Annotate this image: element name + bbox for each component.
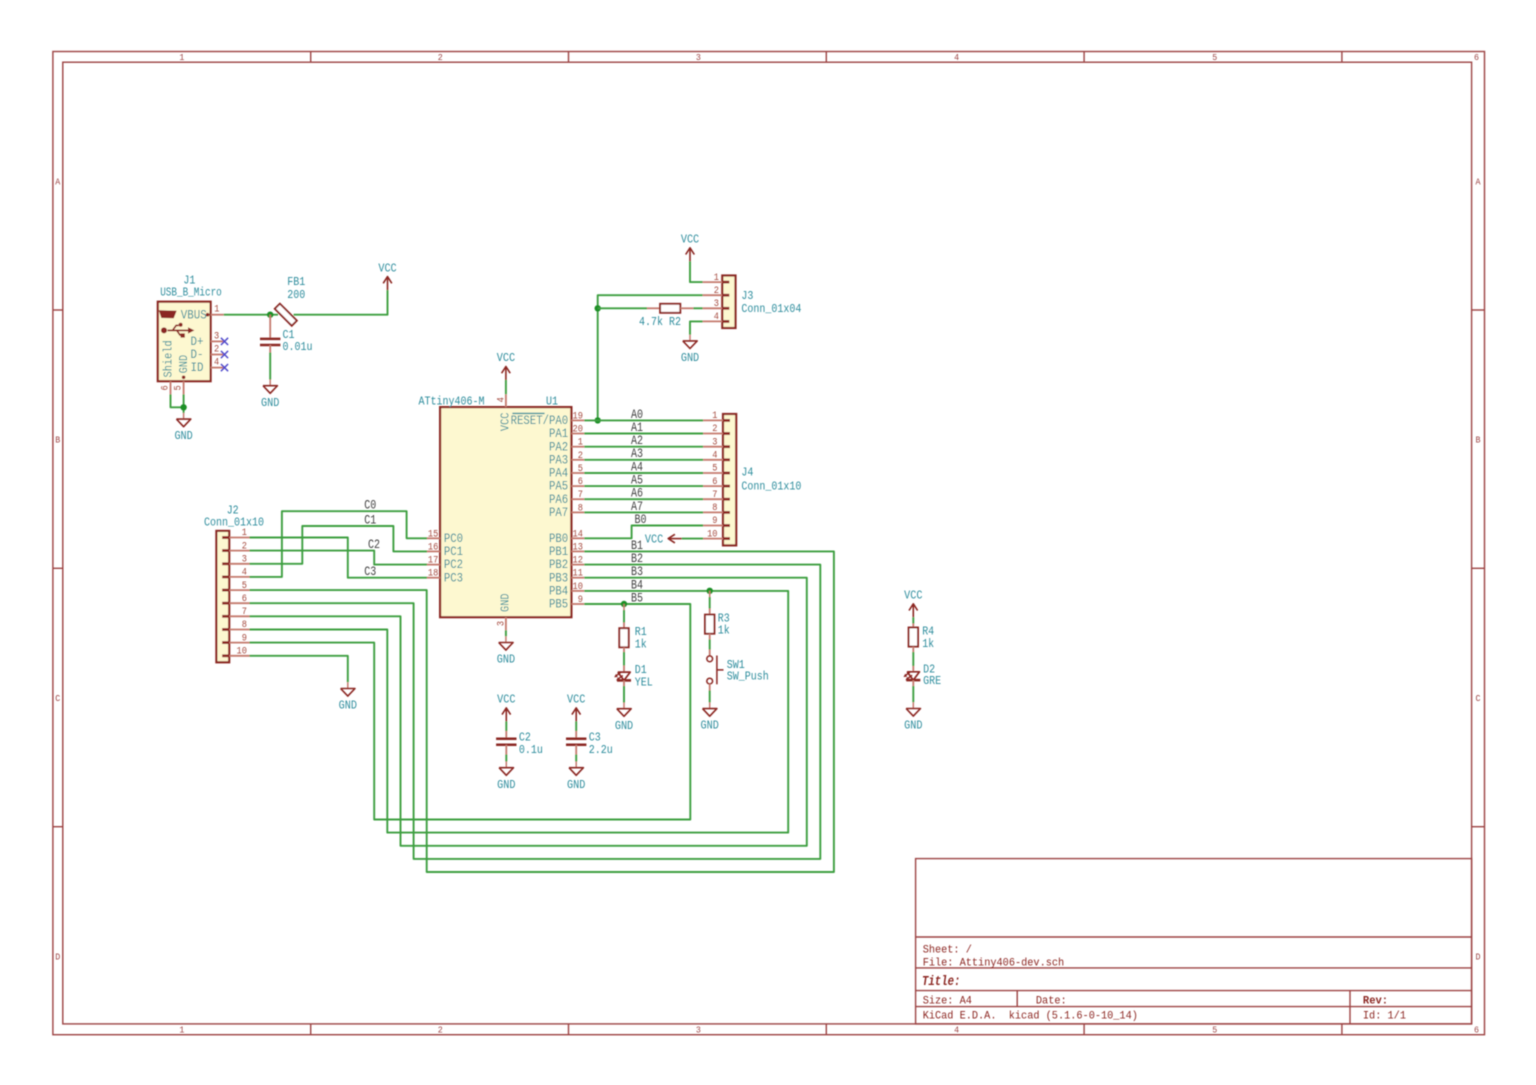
svg-text:9: 9 [578, 595, 583, 606]
svg-text:PC1: PC1 [444, 545, 463, 559]
svg-text:GND: GND [904, 720, 922, 733]
svg-text:17: 17 [428, 556, 438, 567]
svg-text:PA5: PA5 [549, 480, 568, 494]
svg-text:J4: J4 [741, 467, 753, 480]
svg-text:KiCad E.D.A. kicad (5.1.6-0-1: KiCad E.D.A. kicad (5.1.6-0-10_14) [923, 1011, 1138, 1023]
svg-text:0.1u: 0.1u [519, 744, 543, 757]
svg-text:10: 10 [237, 647, 247, 658]
svg-text:PA1: PA1 [549, 427, 568, 441]
svg-text:0.01u: 0.01u [283, 341, 313, 354]
svg-text:5: 5 [1212, 53, 1217, 63]
svg-text:3: 3 [496, 621, 507, 626]
svg-text:A: A [55, 177, 61, 187]
svg-text:7: 7 [712, 490, 717, 501]
svg-text:ATtiny406-M: ATtiny406-M [419, 395, 485, 408]
svg-text:B0: B0 [635, 512, 647, 527]
svg-text:15: 15 [428, 529, 438, 540]
svg-text:5: 5 [578, 464, 583, 475]
svg-text:YEL: YEL [635, 677, 653, 690]
svg-text:6: 6 [712, 477, 717, 488]
svg-text:PA4: PA4 [549, 467, 568, 481]
svg-text:PA2: PA2 [549, 440, 568, 454]
svg-text:D1: D1 [635, 664, 647, 677]
svg-text:C2: C2 [368, 537, 380, 552]
svg-text:Date:: Date: [1036, 996, 1067, 1008]
svg-text:1k: 1k [718, 625, 730, 638]
svg-text:R4: R4 [922, 626, 934, 639]
svg-text:4.7k R2: 4.7k R2 [639, 316, 681, 329]
svg-text:VCC: VCC [645, 533, 663, 546]
svg-text:1: 1 [214, 305, 219, 316]
svg-text:3: 3 [712, 437, 717, 448]
svg-text:GND: GND [681, 352, 699, 365]
svg-text:20: 20 [573, 425, 583, 436]
svg-text:19: 19 [573, 411, 583, 422]
svg-text:9: 9 [712, 516, 717, 527]
svg-text:D-: D- [191, 348, 204, 362]
svg-text:Title:: Title: [922, 974, 960, 990]
svg-text:14: 14 [573, 529, 583, 540]
svg-text:13: 13 [573, 542, 583, 553]
svg-text:GRE: GRE [923, 675, 941, 688]
svg-text:6: 6 [1474, 1025, 1479, 1035]
svg-text:11: 11 [573, 569, 583, 580]
svg-text:2: 2 [578, 451, 583, 462]
svg-text:PB3: PB3 [549, 571, 568, 585]
svg-text:5: 5 [1212, 1025, 1217, 1035]
svg-text:GND: GND [339, 700, 357, 713]
svg-text:2: 2 [438, 53, 443, 63]
svg-text:1: 1 [179, 1025, 184, 1035]
svg-text:PB0: PB0 [549, 532, 568, 546]
svg-text:FB1: FB1 [287, 276, 305, 289]
svg-text:8: 8 [242, 620, 247, 631]
svg-text:PA6: PA6 [549, 493, 568, 507]
svg-text:GND: GND [499, 593, 513, 612]
svg-text:18: 18 [428, 569, 438, 580]
svg-text:GND: GND [567, 779, 585, 792]
svg-text:1: 1 [712, 411, 717, 422]
svg-text:1: 1 [179, 53, 184, 63]
svg-text:GND: GND [174, 430, 192, 443]
svg-text:A: A [1476, 177, 1482, 187]
svg-text:4: 4 [242, 568, 247, 579]
svg-text:PA3: PA3 [549, 453, 568, 467]
svg-text:10: 10 [707, 529, 717, 540]
svg-text:1k: 1k [922, 638, 934, 651]
svg-text:GND: GND [497, 654, 515, 667]
svg-text:Sheet: /: Sheet: / [923, 944, 972, 956]
svg-text:9: 9 [242, 633, 247, 644]
svg-text:RESET/PA0: RESET/PA0 [511, 414, 569, 428]
svg-text:Conn_01x10: Conn_01x10 [741, 481, 801, 494]
svg-text:PB2: PB2 [549, 558, 568, 572]
svg-text:VBUS: VBUS [181, 308, 207, 322]
svg-text:B5: B5 [631, 590, 643, 605]
svg-text:Conn_01x10: Conn_01x10 [204, 516, 264, 529]
svg-text:2: 2 [214, 345, 219, 356]
svg-text:7: 7 [242, 607, 247, 618]
svg-text:C: C [55, 694, 61, 704]
svg-text:VCC: VCC [497, 352, 515, 365]
svg-text:GND: GND [497, 779, 515, 792]
svg-text:VCC: VCC [378, 262, 396, 275]
svg-text:2: 2 [714, 286, 719, 297]
svg-text:4: 4 [214, 358, 219, 369]
svg-text:PC2: PC2 [444, 558, 463, 572]
svg-text:4: 4 [954, 53, 959, 63]
svg-text:VCC: VCC [904, 590, 922, 603]
svg-text:U1: U1 [546, 395, 558, 408]
svg-text:1: 1 [714, 273, 719, 284]
svg-text:VCC: VCC [567, 694, 585, 707]
svg-text:4: 4 [712, 451, 717, 462]
svg-text:VCC: VCC [499, 412, 513, 431]
svg-text:8: 8 [712, 503, 717, 514]
svg-text:C0: C0 [364, 498, 376, 513]
svg-text:1k: 1k [635, 638, 647, 651]
svg-text:USB_B_Micro: USB_B_Micro [160, 287, 222, 300]
svg-text:D+: D+ [191, 335, 204, 349]
svg-text:C3: C3 [364, 564, 376, 579]
svg-text:6: 6 [161, 385, 172, 390]
svg-text:3: 3 [214, 331, 219, 342]
svg-text:5: 5 [712, 464, 717, 475]
svg-text:4: 4 [714, 312, 719, 323]
svg-text:7: 7 [578, 490, 583, 501]
svg-text:5: 5 [174, 385, 185, 390]
svg-text:File: Attiny406-dev.sch: File: Attiny406-dev.sch [923, 957, 1064, 969]
svg-text:GND: GND [261, 397, 279, 410]
svg-text:12: 12 [573, 556, 583, 567]
svg-text:3: 3 [696, 1025, 701, 1035]
svg-text:B: B [55, 436, 61, 446]
svg-text:10: 10 [573, 582, 583, 593]
svg-text:Size: A4: Size: A4 [923, 996, 973, 1008]
svg-text:PC0: PC0 [444, 532, 463, 546]
svg-text:PA7: PA7 [549, 506, 568, 520]
svg-text:200: 200 [287, 289, 305, 302]
svg-text:16: 16 [428, 542, 438, 553]
svg-text:2: 2 [438, 1025, 443, 1035]
svg-text:R3: R3 [718, 612, 730, 625]
svg-text:PB5: PB5 [549, 598, 568, 612]
svg-text:6: 6 [1474, 53, 1479, 63]
svg-text:C: C [1476, 694, 1482, 704]
svg-text:1: 1 [578, 438, 583, 449]
svg-text:Id: 1/1: Id: 1/1 [1363, 1011, 1406, 1023]
svg-text:6: 6 [578, 477, 583, 488]
svg-text:3: 3 [696, 53, 701, 63]
svg-text:R1: R1 [635, 626, 647, 639]
svg-text:2: 2 [712, 424, 717, 435]
svg-text:4: 4 [496, 397, 507, 402]
svg-text:PB1: PB1 [549, 545, 568, 559]
svg-text:8: 8 [578, 503, 583, 514]
svg-text:GND: GND [701, 720, 719, 733]
svg-text:1: 1 [242, 528, 247, 539]
svg-text:C1: C1 [364, 513, 376, 528]
svg-text:D: D [55, 952, 60, 962]
svg-text:6: 6 [242, 594, 247, 605]
svg-text:Conn_01x04: Conn_01x04 [741, 303, 801, 316]
svg-text:2.2u: 2.2u [589, 744, 613, 757]
svg-text:VCC: VCC [497, 694, 515, 707]
svg-text:ID: ID [191, 361, 204, 375]
svg-text:J3: J3 [741, 290, 753, 303]
svg-text:2: 2 [242, 541, 247, 552]
svg-text:Shield: Shield [162, 340, 176, 377]
svg-text:B: B [1476, 436, 1482, 446]
svg-text:VCC: VCC [681, 234, 699, 247]
svg-text:D: D [1476, 952, 1481, 962]
svg-text:PB4: PB4 [549, 585, 568, 599]
svg-text:3: 3 [714, 299, 719, 310]
svg-text:SW_Push: SW_Push [727, 671, 769, 684]
svg-text:Rev:: Rev: [1363, 995, 1388, 1007]
svg-text:GND: GND [177, 355, 191, 374]
svg-text:C3: C3 [589, 732, 601, 745]
svg-text:4: 4 [954, 1025, 959, 1035]
svg-text:PC3: PC3 [444, 571, 463, 585]
svg-text:C2: C2 [519, 732, 531, 745]
svg-text:5: 5 [242, 581, 247, 592]
svg-text:GND: GND [615, 720, 633, 733]
svg-text:3: 3 [242, 555, 247, 566]
